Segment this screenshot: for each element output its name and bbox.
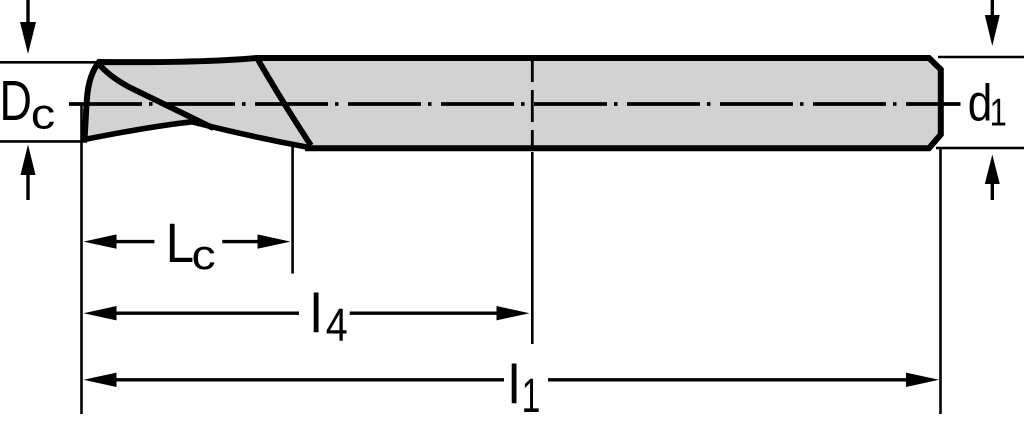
svg-text:4: 4	[326, 300, 348, 352]
drill outline	[85, 58, 941, 148]
l4 right extension line	[531, 152, 534, 344]
d1 bottom extension line	[936, 147, 1024, 150]
l1 right extension line	[939, 148, 942, 414]
top-right arrow	[985, 0, 1000, 46]
bottom-left arrow	[21, 145, 36, 201]
Lc right extension line	[291, 144, 294, 274]
Dc bottom extension line	[0, 140, 87, 143]
top-left arrow	[20, 0, 36, 54]
svg-text:c: c	[31, 90, 55, 137]
Lc dimension line	[84, 234, 291, 248]
left extension line	[80, 104, 83, 414]
svg-text:l: l	[310, 282, 322, 344]
svg-text:L: L	[166, 213, 195, 274]
l1 dimension line	[84, 373, 940, 387]
Dc top extension line	[0, 61, 96, 64]
svg-text:c: c	[192, 231, 216, 278]
svg-text:d: d	[968, 74, 993, 132]
bottom-right arrow	[985, 155, 1000, 201]
flute runout (diagonal 2)	[257, 58, 311, 146]
d1 top extension line	[938, 56, 1024, 59]
svg-text:1: 1	[990, 91, 1007, 134]
svg-text:l: l	[508, 353, 520, 415]
centerline	[69, 102, 961, 106]
flute cutting edge (diagonal 1)	[98, 63, 212, 128]
flute bottom edge / flank curve	[85, 122, 309, 147]
dashed section line at l4	[531, 58, 534, 146]
svg-text:D: D	[0, 69, 32, 132]
l4 dimension line	[84, 306, 530, 320]
svg-text:1: 1	[522, 368, 541, 422]
drill body silhouette fill	[85, 58, 941, 148]
